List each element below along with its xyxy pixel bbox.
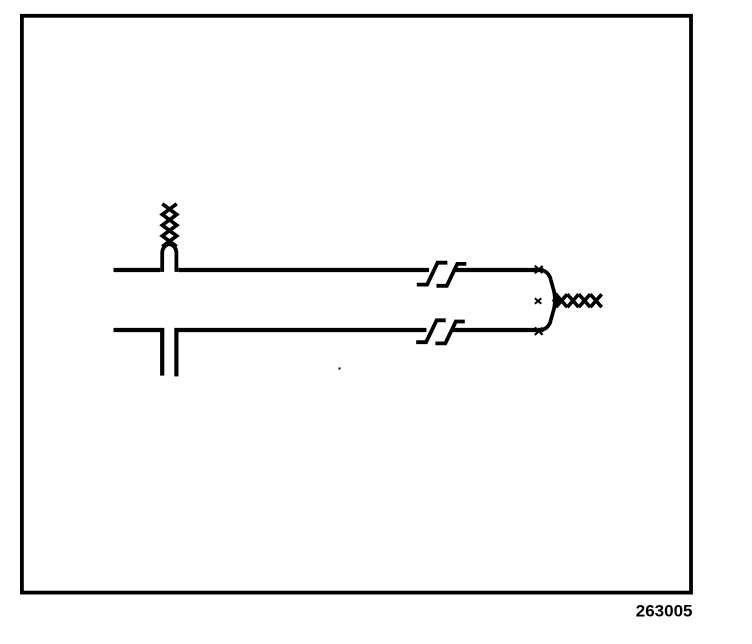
wire: top conductor right segment	[455, 268, 544, 272]
wire: bottom conductor left segment with down leg	[114, 330, 163, 376]
convergence node blob	[553, 294, 561, 306]
crimp tick (x) at bottom conductor right end	[535, 327, 543, 335]
stray dot	[339, 368, 341, 370]
break symbol mark 1 on top conductor	[417, 263, 448, 285]
wire: bottom conductor right segment	[451, 328, 544, 332]
break symbol mark 2 on bottom conductor	[435, 322, 464, 344]
break symbol mark 1 on bottom conductor	[416, 320, 446, 342]
break symbol mark 2 on top conductor	[437, 264, 467, 286]
wire: top conductor end curve down to convergence	[543, 270, 556, 307]
wire: top conductor middle segment	[178, 268, 429, 272]
twisted-wire chain (X2)	[567, 294, 578, 307]
twisted-wire chain rising from splice (zigzag A)	[162, 204, 176, 247]
twisted-wire chain (X3)	[579, 294, 590, 307]
border frame (decorative)	[22, 16, 691, 593]
small x label near convergence	[535, 298, 541, 304]
wire: bottom conductor end curve up to convergence	[543, 293, 556, 330]
twisted-wire chain (X4)	[590, 294, 601, 307]
wire: top conductor left segment	[114, 268, 161, 272]
svg-text:263005: 263005	[636, 601, 693, 620]
wire: bottom conductor right leg and middle segment	[176, 330, 426, 376]
twisted-wire chain rising from splice (zigzag B)	[162, 204, 176, 247]
splice hop (arch) on top conductor	[162, 244, 176, 272]
crimp tick (x) at top conductor right end	[535, 266, 543, 274]
twisted-wire chain to the right of convergence (X1)	[556, 294, 567, 307]
